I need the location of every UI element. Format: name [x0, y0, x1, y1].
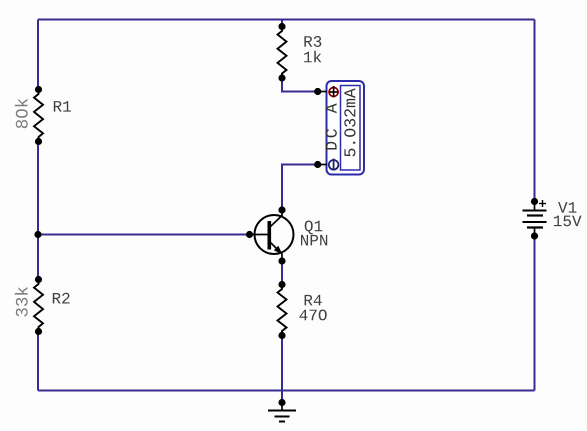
node ammeter minus: [314, 161, 321, 168]
base lead: [250, 234, 269, 236]
node ammeter plus: [314, 88, 321, 95]
label R2 ref: [53, 293, 70, 304]
wire top rail to R3: [281, 20, 283, 28]
wire R3 to ammeter plus terminal: [282, 78, 318, 92]
label DC A: [326, 103, 337, 149]
wire left vertical R2 to bottom rail: [37, 331, 39, 391]
node base junction on left rail: [34, 231, 41, 238]
ammeter plus terminal: [329, 86, 338, 97]
battery plate short: [527, 214, 543, 216]
transistor Q1: [246, 206, 327, 264]
wire right vertical battery to bottom rail: [534, 236, 536, 391]
label Q1 ref: [305, 221, 323, 235]
node battery plus: [531, 198, 538, 205]
wire bottom rail: [38, 390, 535, 392]
ground: [268, 399, 296, 422]
ammeter minus terminal: [329, 159, 339, 170]
collector lead: [271, 210, 283, 227]
resistor R3: [278, 23, 322, 82]
resistor R4: [278, 281, 327, 339]
wire emitter to R4: [281, 261, 283, 285]
label R4 ref: [305, 295, 322, 306]
label reading: [344, 88, 355, 156]
node ground: [278, 399, 285, 406]
label Q1 type: [301, 235, 327, 246]
wire top rail: [38, 19, 535, 21]
wire right vertical top rail to battery: [534, 20, 536, 203]
wire R4 to bottom rail and ground: [281, 335, 283, 400]
wire left vertical R1 to R2: [37, 141, 39, 280]
node collector: [278, 206, 285, 213]
wire base left rail to transistor: [38, 234, 250, 236]
label R1 value: [15, 99, 28, 128]
label R3 value: [304, 51, 321, 63]
battery plate long: [523, 221, 547, 223]
battery plus mark: [539, 203, 546, 205]
node emitter: [278, 257, 285, 264]
emitter arrow: [274, 246, 283, 255]
emitter lead: [271, 243, 281, 253]
wire left vertical top rail to R1: [37, 20, 39, 91]
battery plate short bottom: [527, 226, 543, 228]
resistor R2: [15, 276, 70, 335]
node base: [246, 231, 253, 238]
label R1 ref: [54, 101, 71, 112]
label V1 value: [554, 216, 582, 227]
label R2 value: [15, 287, 28, 317]
resistor R1: [15, 86, 71, 145]
ammeter pin stub minus: [318, 164, 327, 166]
battery plate long top: [523, 210, 547, 212]
ammeter U1: [314, 81, 364, 175]
label R3 ref: [304, 36, 321, 47]
label V1 ref: [558, 202, 576, 213]
wire ammeter minus terminal to collector node: [282, 165, 318, 211]
ammeter pin stub plus: [318, 91, 327, 93]
base bar: [268, 221, 272, 250]
node battery minus: [531, 232, 538, 239]
label R4 value: [300, 310, 327, 321]
battery V1: [523, 198, 582, 240]
